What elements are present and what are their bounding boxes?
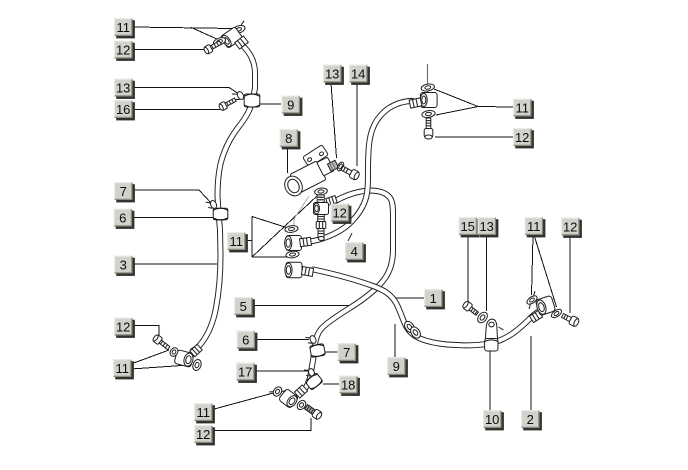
grommet ring 2	[409, 325, 423, 340]
leader 11 right fan	[532, 235, 557, 307]
pin above washer	[427, 64, 429, 93]
label 12 bottom	[194, 425, 215, 445]
svg-text:11: 11	[116, 20, 130, 35]
leader 11 top-right fan	[434, 89, 513, 115]
hose 1-2 (long bottom hose)	[314, 270, 539, 346]
svg-text:7: 7	[120, 184, 127, 199]
washer 11 (lower-left on bolt)	[168, 346, 179, 358]
leader 8	[287, 147, 289, 173]
banjo fitting A (hose 4 end)	[285, 236, 302, 251]
label 8	[280, 129, 301, 149]
leader 16	[133, 109, 221, 111]
screw 16	[218, 96, 237, 111]
svg-text:6: 6	[242, 332, 249, 347]
label 12 mid	[331, 204, 352, 224]
label 16	[114, 100, 135, 120]
label 10	[483, 410, 504, 430]
washer 11 (under pump)	[314, 187, 328, 196]
label 7 left	[114, 182, 135, 202]
banjo fitting C (hose 4 upper end)	[420, 93, 437, 108]
hose 4 (upper middle hose)	[311, 101, 413, 242]
svg-text:9: 9	[287, 97, 294, 112]
crimp collar C	[409, 98, 422, 108]
pump nipple	[327, 160, 338, 171]
leader 7 left	[133, 190, 213, 204]
washer 11 (bottom-center upper)	[269, 383, 286, 399]
svg-text:9: 9	[393, 359, 400, 374]
label 5	[234, 297, 255, 317]
bolt 14	[340, 164, 361, 181]
leader 2	[530, 336, 532, 410]
washer 11 (above banjo A)	[285, 225, 299, 233]
label 7 mid	[338, 343, 359, 363]
leader 1	[395, 297, 424, 299]
label 15	[459, 217, 480, 237]
svg-text:13: 13	[479, 219, 493, 234]
svg-text:11: 11	[527, 219, 541, 234]
leader 17	[254, 370, 308, 372]
leader 11 top-left branch	[191, 27, 219, 40]
flange hole 1	[307, 157, 312, 162]
crimp collar D	[529, 310, 542, 322]
hose 3 (front brake hose, long left)	[193, 47, 255, 351]
label 18	[339, 376, 360, 396]
label 9 upper	[282, 96, 303, 116]
svg-text:4: 4	[351, 244, 358, 259]
flange hole 2	[319, 151, 324, 156]
label 13 top-mid	[323, 65, 344, 85]
svg-text:12: 12	[116, 42, 130, 57]
svg-text:18: 18	[341, 377, 355, 392]
label 9 lower	[387, 357, 408, 377]
svg-text:11: 11	[515, 100, 529, 115]
bolt 12 (top-left)	[203, 39, 222, 55]
leader 13 right	[486, 235, 488, 311]
label 6 mid	[237, 331, 258, 351]
svg-text:8: 8	[285, 131, 292, 146]
pump flange	[303, 145, 329, 168]
bolt 12 (lower-left)	[152, 334, 171, 352]
svg-text:7: 7	[343, 345, 350, 360]
pump neck	[317, 157, 335, 176]
banjo fitting E (hose 5 bottom end)	[278, 388, 299, 409]
crimp collar (lower-left)	[190, 344, 203, 356]
label 4	[345, 242, 366, 262]
label 17	[236, 363, 257, 383]
washer 11 (between banjos)	[286, 250, 300, 258]
leader 7 mid	[324, 351, 338, 353]
leader 14	[356, 83, 358, 166]
banjo fitting G (hose 5 end)	[314, 203, 329, 215]
svg-text:16: 16	[116, 102, 130, 117]
crimp collar A	[299, 237, 311, 246]
leader 3	[132, 263, 217, 265]
leader 15	[467, 235, 469, 302]
washer 11 (lower-left right)	[191, 358, 202, 371]
leader 11 bottom	[213, 392, 278, 410]
clip 13 (on hose 3)	[232, 89, 245, 102]
clip 6 (on hose 5)	[305, 334, 317, 346]
svg-text:6: 6	[119, 210, 126, 225]
sleeve 9 (upper)	[244, 94, 260, 107]
clip 17	[304, 367, 315, 378]
svg-text:11: 11	[115, 361, 129, 376]
label 12 right	[561, 218, 582, 238]
svg-text:12: 12	[116, 319, 130, 334]
leader 12 bottom	[213, 418, 312, 431]
leader 12 top-left	[133, 49, 205, 51]
label 13 right	[478, 217, 499, 237]
hidden gray leader	[294, 196, 309, 231]
pump body	[290, 161, 326, 193]
label 1	[424, 289, 445, 309]
leader 10	[489, 350, 491, 410]
grommet ring 1	[403, 320, 417, 335]
label 12 top-right	[513, 128, 534, 148]
label 14	[349, 65, 370, 85]
washer 11 (right upper)	[523, 291, 542, 309]
leader 12 right	[569, 235, 571, 313]
banjo fitting (top-left, hose 3 end)	[220, 27, 243, 49]
label 13 left	[114, 79, 135, 99]
leader 11 mid bracket	[245, 195, 319, 257]
svg-text:5: 5	[240, 299, 247, 314]
banjo fitting B (hose 1 end)	[285, 262, 302, 278]
leader 18	[323, 383, 339, 385]
washer 13 (right)	[476, 310, 490, 324]
leader 11 top-left	[133, 27, 235, 29]
pump face	[281, 173, 305, 199]
label 11 mid	[227, 232, 248, 252]
label 12 lower-left	[114, 318, 135, 338]
washer 11 (top-left lower)	[212, 36, 226, 47]
leader 6 mid	[255, 339, 309, 341]
washer 11 (top-right lower)	[421, 110, 435, 119]
svg-text:12: 12	[332, 205, 346, 220]
label 11 top-left	[114, 18, 135, 38]
washer 11 (top-left upper)	[230, 21, 247, 35]
leader 13 left	[133, 88, 240, 95]
spring under pump	[317, 195, 325, 203]
bolt 12 (bottom-center)	[304, 403, 324, 420]
svg-text:17: 17	[238, 364, 252, 379]
svg-text:10: 10	[485, 412, 499, 427]
label 11 lower-left	[113, 359, 134, 379]
sleeve 6 (on hose 3)	[213, 208, 228, 220]
label 11 bottom	[194, 403, 215, 423]
leader 9 upper	[258, 103, 281, 105]
leader 4	[348, 233, 352, 241]
sleeve 18	[305, 373, 323, 391]
crimp collar (top-left)	[235, 36, 249, 49]
label 6 left	[114, 209, 135, 229]
leader 11 lower-left upper ray	[131, 350, 169, 364]
leader 12 lower-left	[132, 326, 159, 339]
label 11 top-right	[513, 99, 534, 119]
svg-text:13: 13	[325, 66, 339, 81]
svg-text:14: 14	[351, 66, 365, 81]
crimp collar B	[301, 267, 313, 277]
svg-text:12: 12	[196, 427, 210, 442]
screw 15	[462, 300, 480, 317]
clamp 10	[485, 319, 504, 351]
washer 11 (bottom-center lower)	[295, 399, 307, 412]
washer 11 (top-right upper)	[421, 83, 435, 92]
label 12 top-left	[114, 41, 135, 61]
threaded connector under banjo G	[316, 215, 326, 241]
sleeve 7 (on hose 5)	[310, 344, 326, 358]
banjo fitting D (hose 2 end)	[535, 295, 556, 315]
leader 11 lower-left lower ray	[131, 365, 189, 369]
bolt 12 (top-right, vertical)	[424, 118, 433, 139]
washer 13 (on bolt 14)	[336, 161, 345, 172]
banjo fitting (hose 3 bottom end)	[174, 350, 195, 368]
hose 5 (middle hose)	[299, 191, 393, 394]
crimp collar E	[294, 385, 307, 398]
svg-text:2: 2	[527, 412, 534, 427]
svg-text:3: 3	[120, 257, 127, 272]
svg-text:13: 13	[116, 80, 130, 95]
leader 12 top-right	[435, 136, 513, 138]
leader 13 top-mid	[331, 83, 337, 158]
svg-text:15: 15	[460, 219, 474, 234]
clip 7 (on hose 3)	[206, 198, 218, 211]
svg-text:11: 11	[229, 234, 243, 249]
bolt 12 (right)	[560, 311, 580, 327]
label 3	[114, 256, 135, 276]
washer 11 (right lower)	[550, 308, 563, 320]
svg-text:11: 11	[196, 405, 210, 420]
leader 9 lower	[394, 324, 396, 357]
label 2	[521, 410, 542, 430]
leader 6 left	[132, 217, 214, 219]
leader 5	[253, 305, 358, 307]
svg-text:12: 12	[515, 130, 529, 145]
label 11 right	[525, 217, 546, 237]
svg-text:1: 1	[430, 291, 437, 306]
crimp collar (hose 5 start)	[326, 196, 337, 206]
svg-text:12: 12	[563, 219, 577, 234]
